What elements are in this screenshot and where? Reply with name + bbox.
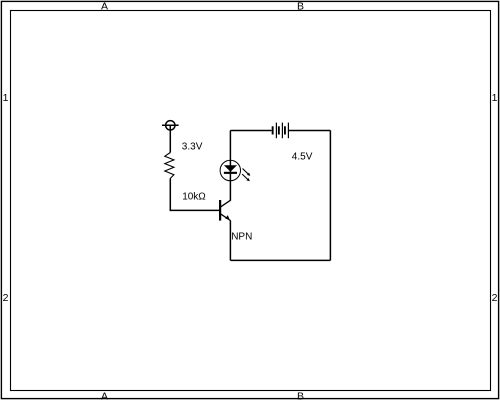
svg-text:A: A <box>101 0 108 12</box>
wire: bottom rail <box>230 259 330 261</box>
wire: top rail left segment <box>230 130 271 132</box>
svg-text:B: B <box>297 0 304 12</box>
svg-text:4.5V: 4.5V <box>292 152 313 163</box>
wire: emitter to bottom rail <box>229 220 231 260</box>
svg-text:A: A <box>101 390 108 400</box>
svg-text:1: 1 <box>492 92 498 104</box>
wire: right rail <box>329 131 331 261</box>
resistor 10kΩ <box>165 153 174 179</box>
wire: resistor bottom to transistor base <box>170 178 219 210</box>
LED D1 <box>220 160 250 181</box>
wire: supply terminal to resistor top <box>169 125 171 152</box>
svg-text:10kΩ: 10kΩ <box>182 192 206 203</box>
svg-text:2: 2 <box>492 292 498 304</box>
svg-text:B: B <box>297 390 304 400</box>
power supply terminal 3.3V <box>162 121 179 130</box>
svg-text:3.3V: 3.3V <box>182 142 203 153</box>
wire: LED cathode to transistor collector <box>229 180 231 200</box>
wire: top rail right segment <box>289 130 330 132</box>
wire: top rail to LED anode <box>229 131 231 162</box>
svg-text:NPN: NPN <box>231 232 252 243</box>
svg-text:2: 2 <box>3 292 9 304</box>
battery 4.5V (3 cells) <box>272 123 289 139</box>
transistor NPN Q <box>219 200 230 221</box>
svg-text:1: 1 <box>3 92 9 104</box>
